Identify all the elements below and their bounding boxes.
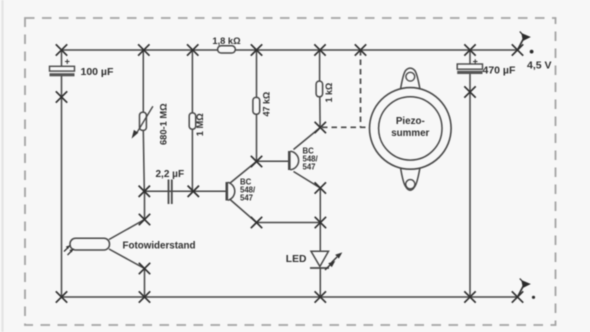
svg-text:4,5 V: 4,5 V bbox=[527, 60, 552, 72]
svg-text:+: + bbox=[65, 57, 70, 67]
node bottom rail 470uF bbox=[464, 291, 475, 302]
svg-text:470 µF: 470 µF bbox=[483, 65, 516, 77]
potentiometer R2 680k-1M body bbox=[140, 112, 147, 130]
battery clip terminal plus bbox=[518, 32, 534, 54]
resistor R1 1.8k horizontal bbox=[218, 46, 236, 53]
wire left column upper bbox=[61, 50, 63, 67]
battery clip terminal minus bbox=[518, 279, 536, 299]
node top rail battery bbox=[512, 44, 523, 55]
svg-text:+: + bbox=[473, 57, 478, 67]
LED D1 bbox=[310, 251, 342, 270]
wire LDR diagonal upper bbox=[109, 220, 145, 240]
wire Q2 emitter bbox=[294, 172, 321, 189]
wire LED column lower bbox=[319, 268, 321, 297]
transistor Q1 BC548/547 bbox=[227, 182, 235, 201]
svg-text:1 kΩ: 1 kΩ bbox=[324, 83, 334, 103]
wire 1M ohm column upper bbox=[191, 50, 193, 113]
piezo buzzer top ear hole bbox=[406, 72, 415, 81]
node below 470uF bbox=[464, 86, 475, 97]
wire top supply rail bbox=[62, 49, 518, 51]
node Q1 emitter bbox=[251, 217, 262, 228]
wire LDR diagonal lower bbox=[109, 249, 145, 269]
scan edge artifact left bbox=[2, 0, 4, 332]
node top rail 1k bbox=[314, 44, 325, 55]
svg-text:LED: LED bbox=[286, 254, 307, 265]
capacitor C3 470uF plates bbox=[457, 57, 482, 74]
wire bottom rail bbox=[62, 296, 518, 298]
wire Q2 collector bbox=[294, 128, 321, 150]
svg-text:Piezo-: Piezo- bbox=[396, 116, 425, 127]
node top rail 1M bbox=[187, 44, 198, 55]
wire Q1 collector bbox=[230, 162, 257, 184]
wire 1M ohm column lower bbox=[191, 129, 193, 191]
transistor Q2 BC548/547 bbox=[289, 151, 298, 170]
node LDR bottom bbox=[139, 263, 150, 274]
wire 470uF column upper bbox=[469, 50, 471, 65]
node bottom rail left bbox=[56, 291, 67, 302]
resistor R5 1k body bbox=[316, 81, 323, 97]
node Q2 collector 1k bbox=[315, 122, 326, 133]
svg-text:47 kΩ: 47 kΩ bbox=[261, 92, 271, 117]
piezo buzzer inner disc bbox=[379, 97, 442, 160]
wire 47k column upper bbox=[256, 50, 258, 97]
node bottom rail LDR bbox=[139, 291, 150, 302]
potentiometer R2 wiper arrow bbox=[132, 106, 153, 138]
wire LDR column to bottom rail bbox=[144, 269, 146, 298]
node top rail pot bbox=[138, 44, 149, 55]
svg-text:547: 547 bbox=[303, 163, 316, 172]
resistor R4 47k body bbox=[253, 97, 260, 114]
piezo buzzer top mounting ear bbox=[400, 68, 420, 90]
wire 47k column lower bbox=[256, 114, 258, 161]
svg-text:547: 547 bbox=[240, 194, 253, 203]
node Q1 collector 47k bbox=[251, 156, 262, 167]
node top rail piezo dash bbox=[355, 44, 366, 55]
resistor R3 1M body bbox=[189, 113, 196, 129]
node C2 right bbox=[188, 186, 199, 197]
svg-text:680-1 MΩ: 680-1 MΩ bbox=[158, 103, 168, 145]
wire left column lower bbox=[61, 76, 63, 297]
wire 470uF column lower bbox=[469, 74, 471, 298]
wire base line Q1 bbox=[144, 190, 226, 192]
wire pot column upper bbox=[142, 50, 144, 113]
svg-text:summer: summer bbox=[391, 128, 429, 139]
node bottom rail LED bbox=[315, 291, 326, 302]
wire pot column mid bbox=[143, 130, 144, 191]
node Q2 emitter bbox=[315, 182, 326, 193]
piezo buzzer outer disc bbox=[370, 88, 452, 170]
node C2 left bbox=[139, 186, 150, 197]
wire 1k column upper bbox=[319, 50, 321, 81]
wire 1k column lower bbox=[319, 97, 321, 128]
junction X marks bbox=[56, 44, 523, 302]
photoresistor light arrows bbox=[64, 245, 74, 255]
wire LED column upper bbox=[319, 188, 321, 251]
wire Q1 emitter bbox=[230, 199, 257, 223]
wire base line Q2 bbox=[257, 160, 290, 162]
wire dashed piezo vertical bbox=[360, 50, 362, 127]
node bottom rail battery bbox=[512, 291, 523, 302]
node emitter rail right bbox=[315, 217, 326, 228]
svg-text:100 µF: 100 µF bbox=[81, 66, 114, 78]
wire emitter rail bbox=[257, 222, 321, 224]
svg-text:Fotowiderstand: Fotowiderstand bbox=[123, 241, 196, 252]
node top rail left bbox=[56, 44, 67, 55]
node top rail 470uF bbox=[464, 44, 475, 55]
capacitor C2 2.2uF plates bbox=[169, 180, 172, 205]
photoresistor LDR body bbox=[70, 238, 110, 250]
svg-text:1,8 kΩ: 1,8 kΩ bbox=[212, 36, 241, 46]
svg-text:1 MΩ: 1 MΩ bbox=[195, 113, 205, 136]
wire pot column to LDR bbox=[144, 191, 146, 219]
wire dashed piezo horizontal bbox=[322, 126, 370, 128]
node below C1 bbox=[56, 91, 67, 102]
piezo buzzer bottom ear hole bbox=[406, 180, 415, 189]
node top rail 47k bbox=[251, 44, 262, 55]
svg-text:2,2 µF: 2,2 µF bbox=[156, 169, 185, 180]
piezo buzzer bottom mounting ear bbox=[400, 167, 420, 191]
capacitor C1 100uF plates bbox=[50, 57, 75, 77]
node LDR top bbox=[139, 214, 150, 225]
